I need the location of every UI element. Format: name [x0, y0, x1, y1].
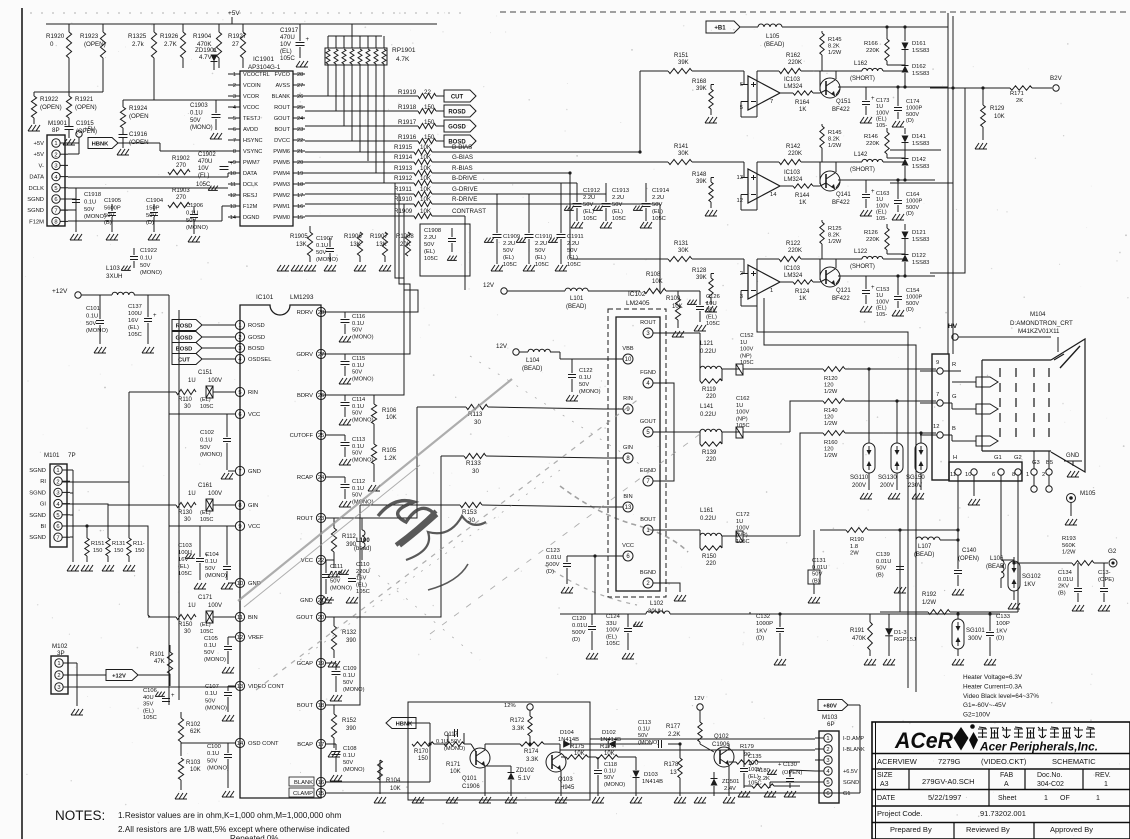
svg-text:8.2K: 8.2K [828, 137, 840, 143]
ground C126 [694, 325, 698, 331]
M101 pins [54, 466, 62, 474]
svg-text:C113: C113 [352, 437, 365, 443]
svg-text:+5V: +5V [228, 10, 240, 17]
svg-text:12%: 12% [504, 703, 516, 709]
svg-text:2: 2 [233, 83, 236, 89]
svg-text:BOSD: BOSD [176, 346, 193, 352]
svg-text:1: 1 [57, 661, 60, 667]
svg-text:(EL): (EL) [200, 397, 211, 403]
svg-text:M105: M105 [1080, 490, 1096, 497]
svg-text:V-: V- [39, 163, 45, 169]
svg-text:50V: 50V [205, 566, 215, 572]
svg-text:AVDD: AVDD [243, 127, 258, 133]
svg-text:(B): (B) [1058, 590, 1066, 596]
svg-text:R142: R142 [786, 144, 801, 150]
CRT grid dashed electrodes [999, 368, 1001, 443]
svg-text:IC103: IC103 [784, 170, 801, 176]
title block column lines [908, 769, 910, 790]
svg-text:100V: 100V [736, 410, 749, 416]
svg-text:(MONO): (MONO) [200, 452, 222, 458]
svg-text:50V: 50V [330, 578, 340, 584]
ground R112 [328, 571, 332, 577]
svg-text:27: 27 [318, 352, 324, 358]
svg-text:(OPEN: (OPEN [129, 139, 149, 146]
svg-text:SGND: SGND [843, 780, 859, 786]
svg-text:2: 2 [54, 152, 57, 158]
svg-text:1/2W: 1/2W [824, 453, 838, 459]
svg-text:10: 10 [625, 357, 632, 363]
resistor R153 30 [360, 504, 460, 506]
svg-text:220K: 220K [866, 48, 880, 54]
svg-text:C1903: C1903 [190, 103, 208, 109]
wire 12V collector rail [484, 743, 486, 745]
svg-text:2.2U: 2.2U [503, 241, 515, 247]
svg-text:DCLK: DCLK [29, 186, 45, 192]
svg-text:17: 17 [318, 742, 324, 748]
ground D191 [883, 659, 887, 665]
svg-text:ZD102: ZD102 [516, 768, 535, 774]
svg-text:BF422: BF422 [832, 296, 850, 302]
svg-text:C164: C164 [906, 192, 919, 198]
svg-text:GOUT: GOUT [296, 615, 313, 621]
svg-text:50V: 50V [190, 118, 201, 124]
ground C123 [561, 587, 565, 593]
svg-text:8: 8 [233, 149, 236, 155]
svg-text:(MONO): (MONO) [204, 657, 226, 663]
ground C1915 [63, 139, 67, 145]
svg-text:L107: L107 [918, 544, 932, 550]
svg-text:(OPEN): (OPEN) [84, 41, 106, 48]
svg-text:M103: M103 [822, 714, 838, 721]
CRT socket box [932, 354, 949, 480]
ground C132 [774, 659, 778, 665]
svg-text:6: 6 [233, 127, 236, 133]
svg-text:SGND: SGND [27, 208, 44, 214]
svg-text:B5: B5 [1046, 460, 1053, 466]
resistor R1904 [218, 24, 220, 32]
svg-text:R150: R150 [702, 554, 717, 560]
svg-text:50V: 50V [535, 248, 545, 254]
svg-text:C114: C114 [352, 397, 365, 403]
svg-text:105C: 105C [535, 262, 549, 268]
resistor R102 62K [178, 718, 183, 742]
svg-text:50V: 50V [812, 572, 822, 578]
svg-text:OF: OF [1060, 795, 1070, 802]
wire M103 bus3 [743, 749, 745, 751]
capacitor C164 kick [894, 200, 902, 202]
svg-text:20: 20 [318, 615, 324, 621]
spark gap SG102 1KV [1008, 561, 1020, 591]
svg-text:3.3K: 3.3K [526, 757, 538, 763]
svg-text:6P: 6P [827, 721, 835, 728]
svg-text:Doc.No.: Doc.No. [1037, 772, 1062, 779]
svg-text:C1904: C1904 [146, 198, 164, 204]
svg-text:28: 28 [318, 310, 324, 316]
grounds C103 C104 [194, 583, 198, 589]
resistor R1911 bus G-DRIVE [305, 193, 414, 195]
svg-text:R1916: R1916 [398, 134, 417, 141]
wire M1901 F12M to IC1901 [68, 220, 222, 222]
svg-text:39K: 39K [696, 179, 707, 185]
svg-text:105C: 105C [178, 571, 192, 577]
svg-text:(D): (D) [146, 220, 154, 226]
svg-text:DVCC: DVCC [274, 138, 290, 144]
svg-text:NOTES:: NOTES: [55, 808, 105, 823]
svg-text:R191: R191 [850, 628, 865, 634]
connector M102 3P [51, 656, 68, 694]
svg-text:L106: L106 [990, 556, 1004, 562]
resistor R1927 [242, 24, 244, 32]
svg-text:+5V: +5V [34, 141, 45, 147]
svg-text:7: 7 [56, 535, 59, 541]
svg-text:6: 6 [238, 412, 241, 418]
svg-text:PWM3: PWM3 [273, 182, 290, 188]
svg-text:(EL): (EL) [200, 510, 211, 516]
svg-text:VREF: VREF [248, 635, 264, 641]
svg-text:7: 7 [233, 138, 236, 144]
svg-text:(EL): (EL) [198, 173, 209, 179]
svg-text:R151: R151 [91, 541, 104, 547]
svg-text:3: 3 [826, 758, 829, 764]
resistor R1913 bus R-BIAS [305, 172, 414, 174]
ground R151b [81, 565, 85, 571]
wire channel output node [905, 86, 935, 88]
svg-text:R151: R151 [674, 53, 689, 59]
svg-text:105C: 105C [567, 262, 581, 268]
ground C1909 [491, 265, 495, 271]
svg-text:C102: C102 [200, 430, 214, 436]
svg-text:10K: 10K [604, 751, 615, 757]
ground C163 [860, 210, 864, 216]
svg-text:14: 14 [770, 192, 777, 198]
wire b-bias vertical [639, 71, 641, 152]
spark gap SG110 [868, 369, 870, 441]
svg-text:8.2K: 8.2K [828, 44, 840, 50]
resistor R112 390 [333, 518, 335, 528]
svg-text:105C: 105C [143, 715, 157, 721]
svg-text:12V: 12V [483, 282, 495, 289]
svg-text:OSDSEL: OSDSEL [248, 357, 272, 363]
ground R109 [672, 331, 676, 337]
ground CRT pin 10 [968, 499, 972, 505]
svg-text:50V: 50V [503, 248, 513, 254]
+5V rail wire [46, 23, 437, 25]
svg-text:50V: 50V [352, 411, 362, 417]
svg-text:L103: L103 [106, 265, 120, 272]
svg-text:C140: C140 [962, 548, 977, 554]
capacitor C174 kick [894, 107, 902, 109]
resistor R129 10K [982, 88, 984, 105]
svg-text:7: 7 [54, 208, 57, 214]
Acer chinese company name (stylized) [978, 727, 987, 738]
svg-text:R1923: R1923 [80, 33, 99, 40]
svg-text:ROSD: ROSD [448, 109, 466, 115]
svg-text:15: 15 [297, 215, 303, 221]
svg-text:2KV: 2KV [1058, 584, 1069, 590]
svg-text:4.7V: 4.7V [199, 54, 213, 61]
svg-text:R1926: R1926 [160, 33, 179, 40]
grounds under caps row [70, 234, 74, 240]
svg-text:D141: D141 [912, 134, 926, 140]
svg-text:R104: R104 [386, 778, 401, 784]
svg-text:G-BIAS: G-BIAS [452, 154, 473, 161]
svg-text:220K: 220K [788, 248, 802, 254]
svg-text:L141: L141 [700, 404, 714, 410]
svg-text:L161: L161 [700, 508, 714, 514]
svg-text:17: 17 [297, 193, 303, 199]
svg-text:GCAP: GCAP [297, 661, 314, 667]
resistor R111 150 [128, 482, 130, 538]
svg-text:105C: 105C [200, 629, 213, 635]
svg-text:12: 12 [230, 193, 236, 199]
svg-text:1N414B: 1N414B [600, 737, 621, 743]
capacitor C153 [862, 290, 870, 292]
spark gap SG101 300V [952, 619, 964, 649]
svg-text:+6.5V: +6.5V [843, 769, 858, 775]
svg-text:10K: 10K [420, 154, 432, 161]
svg-text:FGND: FGND [640, 370, 656, 376]
svg-text:50V: 50V [352, 328, 362, 334]
CRT bottom pin box [949, 462, 1022, 481]
svg-text:23: 23 [297, 127, 303, 133]
svg-text:Q141: Q141 [836, 192, 851, 198]
svg-text:(EL): (EL) [280, 48, 292, 55]
svg-text:R144: R144 [795, 193, 810, 199]
svg-text:26: 26 [297, 94, 303, 100]
ground C120 [586, 653, 590, 659]
svg-text:C104: C104 [205, 552, 220, 558]
wire R1924 top [123, 99, 240, 101]
svg-text:C124: C124 [606, 614, 621, 620]
svg-text:R103: R103 [186, 760, 201, 766]
svg-text:(OPEN): (OPEN) [75, 104, 97, 111]
ground R1922 [28, 125, 32, 131]
svg-text:ROUT: ROUT [274, 105, 290, 111]
svg-text:ROSD: ROSD [176, 323, 193, 329]
svg-text:(OPEN): (OPEN) [782, 770, 802, 776]
wire M1901 DCLK to IC1901 [68, 187, 228, 189]
svg-text:270: 270 [176, 163, 187, 169]
svg-text:560K: 560K [1062, 543, 1076, 549]
svg-text:R-DRIVE: R-DRIVE [452, 196, 477, 203]
capacitor C122 [568, 374, 576, 376]
svg-text:2.2U: 2.2U [535, 241, 547, 247]
svg-text:R193: R193 [1062, 536, 1076, 542]
svg-text:SG130: SG130 [878, 475, 897, 481]
wire M101 BI [62, 526, 150, 617]
ground R148 [705, 210, 709, 216]
grounds pull-down row [277, 265, 281, 271]
svg-text:1KV: 1KV [756, 628, 767, 634]
svg-text:C1911: C1911 [567, 234, 584, 240]
svg-text:1000P: 1000P [756, 621, 773, 627]
svg-text:C139: C139 [876, 552, 890, 558]
svg-text:(MONO): (MONO) [343, 767, 365, 773]
svg-text:IC1901: IC1901 [253, 56, 274, 63]
resistor R133 30 [441, 455, 464, 457]
svg-text:R119: R119 [702, 387, 717, 393]
svg-text:8P: 8P [52, 127, 60, 134]
diode D102 1N4148 [608, 740, 616, 748]
svg-text:BI: BI [41, 524, 47, 530]
svg-text:R148: R148 [692, 172, 707, 178]
svg-text:C106: C106 [143, 688, 157, 694]
svg-text:100U: 100U [178, 550, 192, 556]
svg-text:(MONO): (MONO) [190, 125, 213, 131]
svg-text:SCHEMATIC: SCHEMATIC [1052, 757, 1096, 766]
+5V terminal near M1901 [76, 131, 82, 137]
svg-text:GDRV: GDRV [296, 352, 313, 358]
svg-text:R166: R166 [864, 41, 878, 47]
svg-text:120: 120 [824, 382, 834, 388]
svg-text:R141: R141 [674, 144, 689, 150]
wire emitter down [836, 182, 840, 188]
zener ZD501 2.4V [711, 779, 718, 786]
svg-text:R1913: R1913 [394, 165, 413, 172]
page border left edge [21, 8, 23, 839]
resistor R146 220K [885, 132, 889, 154]
svg-text:2W: 2W [850, 551, 859, 557]
resistor R174 3.3K [520, 742, 544, 746]
svg-text:10V: 10V [198, 166, 209, 172]
flag +B1 [706, 21, 740, 33]
svg-text:5: 5 [826, 780, 829, 786]
ground R111 [123, 565, 127, 571]
svg-text:C1912: C1912 [583, 188, 600, 194]
svg-text:0.1U: 0.1U [190, 110, 203, 116]
svg-text:C112: C112 [352, 479, 365, 485]
svg-text:C111: C111 [330, 564, 343, 570]
svg-text:11: 11 [237, 615, 243, 621]
svg-text:SGND: SGND [29, 513, 46, 519]
wire +80V vertical [859, 705, 861, 793]
svg-text:150: 150 [424, 134, 435, 141]
svg-text:220: 220 [706, 561, 717, 567]
svg-text:GND: GND [1066, 453, 1080, 459]
svg-text:200V: 200V [880, 483, 894, 489]
svg-text:100V: 100V [876, 299, 889, 305]
svg-text:2.2K: 2.2K [668, 732, 680, 738]
svg-text:Sheet: Sheet [998, 795, 1016, 802]
svg-text:33U: 33U [606, 621, 617, 627]
IC102 left pins [623, 354, 633, 364]
svg-text:19: 19 [318, 661, 324, 667]
svg-text:B-BIAS: B-BIAS [452, 144, 472, 151]
flags box outline [167, 316, 169, 318]
resistor R1915 bus B-BIAS [305, 151, 414, 153]
svg-text:50V: 50V [140, 263, 150, 269]
wire +12V rail right [134, 294, 169, 296]
svg-text:R190: R190 [850, 537, 864, 543]
svg-text:(MONO): (MONO) [207, 766, 229, 772]
svg-text:220K: 220K [788, 151, 802, 157]
resistor R145 emitter [820, 126, 824, 148]
svg-text:0.1U: 0.1U [343, 753, 355, 759]
wire M1901 DATA to IC1901 [68, 176, 228, 178]
svg-text:0.1U: 0.1U [352, 404, 364, 410]
svg-text:220: 220 [706, 457, 717, 463]
svg-text:6: 6 [54, 197, 57, 203]
resistor R1923 [102, 24, 104, 32]
svg-text:100V: 100V [208, 603, 222, 609]
spark gap SG130 [896, 401, 898, 441]
svg-text:+ C130: + C130 [778, 762, 797, 768]
wire R-DRIVE to RDRV [659, 204, 661, 292]
svg-text:C1913: C1913 [612, 188, 629, 194]
wire +B rail to diodes [904, 27, 906, 35]
svg-text:C1906: C1906 [186, 203, 203, 209]
svg-text:C1915: C1915 [76, 121, 94, 127]
svg-text:1U: 1U [740, 340, 747, 346]
svg-text:D:AMONDTRON_CRT: D:AMONDTRON_CRT [1010, 320, 1073, 327]
svg-text:16: 16 [318, 780, 324, 786]
svg-text:ZD501: ZD501 [722, 779, 739, 785]
svg-text:C116: C116 [352, 314, 365, 320]
svg-text:0.22U: 0.22U [700, 516, 716, 522]
svg-text:21: 21 [297, 149, 303, 155]
svg-text:35V: 35V [143, 702, 153, 708]
svg-text:0.01U: 0.01U [1058, 577, 1073, 583]
ground SG130 [888, 493, 892, 499]
flag ROSD to IC101 [172, 320, 202, 331]
svg-text:0.1U: 0.1U [84, 199, 96, 205]
svg-text:7: 7 [770, 99, 773, 105]
svg-text:C113: C113 [638, 720, 651, 726]
svg-text:0.1U: 0.1U [352, 363, 364, 369]
svg-text:R122: R122 [786, 241, 801, 247]
svg-text:50V: 50V [84, 207, 94, 213]
svg-text:C152: C152 [740, 333, 754, 339]
svg-text:1: 1 [1044, 795, 1048, 802]
svg-text:0.1U: 0.1U [352, 321, 364, 327]
resistor R1916 and flag BOSD [305, 140, 418, 142]
svg-text:(bead): (bead) [354, 546, 371, 552]
svg-text:HBNK: HBNK [92, 141, 110, 147]
resistor R1325 [153, 24, 155, 32]
svg-text:16: 16 [297, 204, 303, 210]
svg-text:R130: R130 [178, 510, 193, 516]
svg-text:1N414B: 1N414B [642, 779, 663, 785]
svg-text:50V: 50V [86, 321, 96, 327]
spark gap SG150 [920, 433, 922, 441]
svg-text:470K: 470K [852, 636, 866, 642]
svg-text:+5V: +5V [34, 152, 45, 158]
ground C107 [222, 715, 226, 721]
svg-text:0.1U: 0.1U [579, 375, 591, 381]
svg-text:C172: C172 [736, 512, 750, 518]
grounds blanking row [412, 797, 416, 803]
svg-text:10: 10 [230, 171, 236, 177]
svg-text:(EL): (EL) [424, 249, 435, 255]
svg-text:BF422: BF422 [832, 107, 850, 113]
svg-text:1000P: 1000P [906, 294, 922, 300]
svg-text:PWM5: PWM5 [273, 160, 290, 166]
svg-text:GOSD: GOSD [248, 335, 265, 341]
svg-text:C1906: C1906 [712, 742, 730, 748]
svg-text:R11-: R11- [133, 541, 145, 547]
svg-text:C110: C110 [356, 562, 369, 568]
svg-text:50V: 50V [343, 760, 353, 766]
capacitor C1915 [65, 126, 74, 128]
svg-text:0.1U: 0.1U [343, 673, 355, 679]
wire FGND EGND joins [666, 383, 674, 481]
svg-text:M102: M102 [52, 643, 68, 650]
svg-text:BLANK: BLANK [272, 94, 291, 100]
svg-text:1: 1 [1104, 781, 1108, 788]
svg-text:6: 6 [992, 472, 995, 478]
svg-text:BIN: BIN [623, 494, 632, 500]
ground M105 [1065, 519, 1069, 525]
